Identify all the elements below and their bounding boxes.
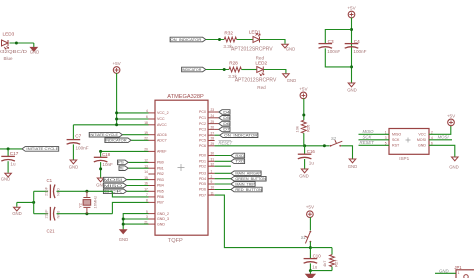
svg-text:C21: C21 <box>47 229 56 234</box>
wire +5V down <box>116 73 118 125</box>
wire crystal to PB6 <box>112 191 148 197</box>
wire to C3 <box>325 30 351 44</box>
wire flag to R32 <box>206 39 224 41</box>
net label D5 <box>219 116 230 121</box>
svg-text:3: 3 <box>385 136 387 140</box>
svg-text:23: 23 <box>211 108 215 112</box>
pin 27 PC4 <box>199 131 215 137</box>
svg-text:10: 10 <box>211 186 215 190</box>
svg-text:GND_3: GND_3 <box>157 217 169 221</box>
svg-text:VCC: VCC <box>418 133 426 137</box>
svg-text:16MHz: 16MHz <box>93 196 98 209</box>
wire JP1 GND <box>435 272 456 274</box>
wire +5V down to ground <box>351 18 353 83</box>
wire PD0 <box>215 155 231 157</box>
svg-text:12: 12 <box>144 159 148 163</box>
svg-text:INITIATE CYCLE: INITIATE CYCLE <box>89 133 118 137</box>
wire flag to R28 <box>206 69 229 71</box>
svg-text:29: 29 <box>211 142 215 146</box>
wire PD5 <box>215 183 231 185</box>
wire PB0 <box>128 161 148 163</box>
svg-text:2: 2 <box>211 175 213 179</box>
svg-text:PD2: PD2 <box>199 164 206 168</box>
svg-text:10nF: 10nF <box>102 162 113 167</box>
ground (S2) <box>348 159 358 169</box>
svg-text:ATMEGA328P: ATMEGA328P <box>167 94 204 100</box>
svg-text:PB4: PB4 <box>157 184 164 188</box>
svg-text:S1: S1 <box>301 235 306 240</box>
wire ISP GND to ground <box>429 145 455 156</box>
wire PD6 <box>215 189 231 191</box>
wire PC4 <box>215 134 220 136</box>
junction LED3 net <box>15 42 18 45</box>
svg-text:PD3: PD3 <box>199 172 206 176</box>
svg-text:7: 7 <box>146 193 148 197</box>
wire to ground <box>309 271 311 274</box>
svg-text:GND: GND <box>69 165 79 170</box>
pin 9 PD5 <box>199 180 215 186</box>
capacitor C4 <box>345 44 359 49</box>
wire down to ground <box>33 43 35 47</box>
svg-text:MOSI: MOSI <box>417 138 426 142</box>
svg-text:PC0: PC0 <box>199 110 206 114</box>
svg-text:ADC7: ADC7 <box>157 139 167 143</box>
wire ISP VCC to +5V <box>429 125 451 134</box>
svg-text:MISO: MISO <box>104 184 123 188</box>
wire ISP MISO <box>359 133 390 135</box>
wire PD7 to S1 node <box>215 195 311 248</box>
svg-text:GND_2: GND_2 <box>157 212 169 216</box>
svg-text:6: 6 <box>431 141 433 145</box>
net label D6 <box>219 121 230 126</box>
svg-text:GND: GND <box>30 50 40 55</box>
wire R27 to gnd rail <box>331 267 333 271</box>
svg-text:1u: 1u <box>312 265 318 270</box>
wire pin to flag <box>215 111 219 113</box>
wire pin to flag <box>215 123 219 125</box>
svg-text:D4: D4 <box>223 110 230 114</box>
svg-text:22pF: 22pF <box>44 186 49 196</box>
+5V supply (decoupling) <box>347 6 356 18</box>
svg-text:RESET: RESET <box>219 141 233 146</box>
net label MAIN_TRIP <box>231 182 256 187</box>
pin 24 PC1 <box>199 114 215 120</box>
svg-text:GREEN_BUTTON: GREEN_BUTTON <box>235 177 266 181</box>
origin cross <box>178 164 185 171</box>
junction <box>115 118 118 121</box>
svg-text:22pF: 22pF <box>44 209 49 219</box>
+5V supply (ISP) <box>447 114 456 126</box>
svg-text:1: 1 <box>211 170 213 174</box>
ground (C7) <box>69 160 79 170</box>
svg-text:APT2012SRCPRV: APT2012SRCPRV <box>235 78 277 84</box>
junction C18 gnd wire <box>99 167 102 170</box>
crystal Y2 <box>83 191 91 213</box>
svg-text:Red: Red <box>257 85 266 90</box>
wire top branch right <box>57 190 113 192</box>
svg-text:9: 9 <box>211 180 213 184</box>
junction RESET/C16 <box>303 144 306 147</box>
wire R to RESET <box>303 133 305 146</box>
resistor R28 <box>229 67 241 72</box>
svg-text:SCK: SCK <box>363 135 373 140</box>
capacitor C17 <box>1 156 15 161</box>
origin cross <box>406 138 411 143</box>
pin 1 PD3 <box>199 170 215 176</box>
svg-text:D5: D5 <box>223 116 230 120</box>
svg-text:+5V: +5V <box>299 87 308 92</box>
pin 16 PB4 <box>144 182 164 188</box>
wire PB3 MOSI <box>127 179 149 181</box>
wire AREF to C18 <box>101 150 149 152</box>
wire PB1 <box>128 167 148 169</box>
net label ON_INDICATOR (row 1) <box>170 37 206 42</box>
svg-text:+5V: +5V <box>347 6 356 11</box>
pin 14 PB2 <box>144 170 164 176</box>
junction C10/R27 gnd <box>309 269 312 272</box>
switch S1 <box>305 231 312 244</box>
pin 7 PB6 <box>146 193 164 199</box>
wire to C18 <box>100 151 102 157</box>
svg-text:8: 8 <box>146 199 148 203</box>
svg-text:PC6: PC6 <box>199 144 206 148</box>
junction <box>122 223 125 226</box>
LED LED2 <box>257 67 264 76</box>
capacitor C1 <box>50 185 55 199</box>
svg-text:VCC_2: VCC_2 <box>157 111 169 115</box>
net label GREEN_BUTTON <box>231 176 267 181</box>
wire top branch left <box>34 190 48 192</box>
wire RESET <box>215 145 330 147</box>
svg-text:GND: GND <box>287 78 297 83</box>
svg-text:ISP1: ISP1 <box>399 156 409 161</box>
svg-text:20: 20 <box>144 148 148 152</box>
junction RESET/S2 <box>323 144 326 147</box>
svg-text:INDICATOR: INDICATOR <box>105 139 127 143</box>
svg-text:11: 11 <box>211 191 215 195</box>
junction <box>122 218 125 221</box>
svg-text:PD0: PD0 <box>199 154 206 158</box>
wire crystal gnd stub <box>17 201 34 203</box>
net label MAIN_AIRGAP <box>231 171 262 176</box>
svg-text:PD1: PD1 <box>199 160 206 164</box>
wire pin to flag <box>215 117 219 119</box>
svg-text:PD4: PD4 <box>199 177 206 181</box>
resistor R27 (pulldown) <box>330 255 335 267</box>
svg-text:C10: C10 <box>313 254 322 259</box>
wire RESET to C16 <box>304 146 306 154</box>
svg-text:PS: PS <box>118 161 124 165</box>
op-amp U1 ATMEGA328P body <box>155 100 208 235</box>
ground (LED2) <box>283 74 297 83</box>
svg-text:C3: C3 <box>328 39 334 44</box>
pin 3 GND_3 <box>146 215 169 221</box>
+5V supply (S1) <box>306 205 315 218</box>
wire to C17 <box>7 149 9 156</box>
svg-text:R28: R28 <box>229 61 238 66</box>
pin 8 PB7 <box>146 199 164 205</box>
ground (C16) <box>299 169 309 179</box>
svg-text:C7: C7 <box>75 134 81 139</box>
svg-text:GND: GND <box>286 47 296 52</box>
svg-text:C4: C4 <box>354 39 360 44</box>
svg-text:D6: D6 <box>223 122 230 126</box>
wire crystal to PB7 <box>112 202 148 213</box>
pin 15 PB3 <box>144 176 164 182</box>
svg-text:PB2: PB2 <box>157 172 164 176</box>
pin 13 PB1 <box>144 164 164 170</box>
svg-text:30: 30 <box>211 152 215 156</box>
wire C3 to rail <box>325 48 351 67</box>
wire R32 to LED1 <box>237 39 253 41</box>
wire +5V to R <box>303 98 305 120</box>
pin 4 VCC_2 <box>146 109 169 115</box>
junction row2 <box>223 68 226 71</box>
svg-text:PC1: PC1 <box>199 116 206 120</box>
wire left bar <box>33 191 35 213</box>
svg-text:2: 2 <box>431 130 433 134</box>
svg-text:5: 5 <box>146 210 148 214</box>
wire pin to flag <box>215 128 219 130</box>
pin 23 PC0 <box>199 108 215 114</box>
net label MISO (PB4) <box>103 183 126 188</box>
capacitor C18 <box>94 157 108 162</box>
wire ISP SCK <box>359 139 390 141</box>
wire down to R27 <box>331 248 333 255</box>
svg-text:MISO: MISO <box>392 133 401 137</box>
pin 2 PD4 <box>199 175 215 181</box>
svg-text:100nF: 100nF <box>327 49 340 54</box>
junction S1 node <box>309 246 312 249</box>
wire +5V to S1 <box>309 217 311 230</box>
wire C18 to ground <box>100 162 102 178</box>
junction C3/C4 top <box>350 28 353 31</box>
capacitor C10 <box>304 259 318 264</box>
pin circle <box>464 275 468 278</box>
svg-text:GND: GND <box>439 268 449 273</box>
wire C17 net <box>0 148 22 150</box>
svg-text:10k: 10k <box>295 126 300 132</box>
wire to VCC pin 6 <box>117 118 149 120</box>
junction crystal left bar <box>32 201 35 204</box>
svg-text:LED1: LED1 <box>249 29 261 34</box>
svg-text:6: 6 <box>146 115 148 119</box>
svg-text:INDICATOR: INDICATOR <box>182 68 202 72</box>
pin 21 GND <box>144 220 165 226</box>
svg-text:21: 21 <box>144 220 148 224</box>
svg-text:C1: C1 <box>47 178 53 183</box>
wire C17 to ground <box>7 161 9 173</box>
svg-text:RST: RST <box>392 144 400 148</box>
junction <box>115 123 118 126</box>
net label TE (PB1) <box>119 166 128 171</box>
net label INDICATOR (pin 22) <box>105 138 131 143</box>
svg-text:MOSI: MOSI <box>438 135 450 140</box>
svg-text:PB7: PB7 <box>157 201 164 205</box>
wire LED1 to ground <box>260 40 285 44</box>
svg-text:ADC6: ADC6 <box>157 133 167 137</box>
junction AREF <box>99 150 102 153</box>
wire C16 to ground <box>304 159 306 169</box>
svg-text:LED2: LED2 <box>255 60 267 65</box>
wire node to C10 <box>309 248 311 259</box>
svg-text:24: 24 <box>211 114 215 118</box>
wire PD4 <box>215 178 231 180</box>
svg-text:MOSI: MOSI <box>104 178 123 182</box>
svg-text:15: 15 <box>144 176 148 180</box>
svg-text:4k7: 4k7 <box>322 260 327 267</box>
svg-text:13: 13 <box>144 164 148 168</box>
wire PD1 <box>215 160 231 162</box>
svg-text:C17: C17 <box>10 151 19 156</box>
pin 12 PB0 <box>144 159 164 165</box>
wire gnd rail <box>310 270 332 272</box>
svg-text:4: 4 <box>146 109 148 113</box>
wire rail to C7 <box>72 125 74 139</box>
svg-text:ON_INDICATOR: ON_INDICATOR <box>170 38 202 42</box>
capacitor C16 <box>298 154 312 159</box>
svg-text:AVCC: AVCC <box>157 123 167 127</box>
svg-text:4: 4 <box>431 136 433 140</box>
pin 10 PD6 <box>199 186 215 192</box>
svg-text:D7: D7 <box>223 128 230 132</box>
svg-text:PC3: PC3 <box>199 128 206 132</box>
svg-text:18: 18 <box>144 121 148 125</box>
svg-text:PC4: PC4 <box>199 133 206 137</box>
wire PD3 <box>215 172 231 174</box>
pin 6 VCC <box>146 115 165 121</box>
capacitor C21 <box>50 207 55 221</box>
net label PS (PB0) <box>118 160 129 165</box>
svg-text:GND: GND <box>157 222 165 226</box>
wire ADC6 <box>122 134 148 136</box>
svg-text:GND: GND <box>449 164 459 169</box>
svg-text:PD6: PD6 <box>199 188 206 192</box>
wire GND_3 <box>123 218 148 220</box>
svg-text:PB3: PB3 <box>157 178 164 182</box>
pin 28 PC5 <box>199 137 215 143</box>
net label RED_BUTTON <box>231 187 263 192</box>
svg-text:C16: C16 <box>307 149 316 154</box>
svg-text:GND: GND <box>348 164 358 169</box>
wire PD2 stub <box>215 165 231 167</box>
+5V supply (reset pullup) <box>299 87 308 99</box>
wire LED2 to ground <box>264 70 286 74</box>
svg-text:RED_BUTTON: RED_BUTTON <box>235 188 262 192</box>
svg-text:PB1: PB1 <box>157 166 164 170</box>
pin 30 PD0 <box>199 152 215 158</box>
svg-text:PC5: PC5 <box>199 139 206 143</box>
svg-text:22: 22 <box>144 137 148 141</box>
svg-text:19: 19 <box>144 131 148 135</box>
svg-text:MAIN_AIRGAP: MAIN_AIRGAP <box>235 172 261 176</box>
pin 11 PD7 <box>199 191 215 197</box>
svg-text:PB5: PB5 <box>157 190 164 194</box>
svg-text:RESET: RESET <box>360 140 375 145</box>
svg-text:GND: GND <box>119 237 129 242</box>
svg-text:14: 14 <box>144 170 148 174</box>
wire GND_2 <box>123 214 148 230</box>
pin 17 PB5 <box>144 188 164 194</box>
svg-text:100nF: 100nF <box>353 49 366 54</box>
wire C7 to ground <box>72 144 74 159</box>
svg-text:VCC: VCC <box>157 117 165 121</box>
pin 32 PD2 <box>199 162 215 168</box>
junction <box>115 111 118 114</box>
net label INITIATE CYCLE (pin 19) <box>89 132 122 137</box>
svg-text:SCK: SCK <box>392 138 400 142</box>
svg-text:TE: TE <box>119 166 124 170</box>
svg-text:1u: 1u <box>309 161 315 166</box>
junction C3/C4 bottom <box>350 65 353 68</box>
net name RESET <box>360 140 375 145</box>
pin 19 ADC6 <box>144 131 166 137</box>
svg-text:ON_INDICATOR: ON_INDICATOR <box>224 133 258 137</box>
svg-text:100nF: 100nF <box>76 145 89 150</box>
svg-text:3: 3 <box>146 215 148 219</box>
svg-text:32: 32 <box>211 162 215 166</box>
svg-text:Y2: Y2 <box>78 202 83 208</box>
svg-text:MAIN_TRIP: MAIN_TRIP <box>235 182 255 186</box>
svg-text:APT2012SRCPRV: APT2012SRCPRV <box>231 47 273 53</box>
ground (LED1) <box>282 44 296 51</box>
wire node to R27 <box>310 247 332 249</box>
svg-text:+5V: +5V <box>447 114 456 119</box>
svg-text:PD5: PD5 <box>199 182 206 186</box>
svg-text:C18: C18 <box>102 152 111 157</box>
wire to VCC_2 pin 4 <box>117 112 149 114</box>
svg-text:5: 5 <box>385 141 387 145</box>
net label INITIATE CYCLE (left) <box>22 147 59 152</box>
net label MOSI (PB3) <box>103 177 126 182</box>
ground (C17) <box>1 173 12 181</box>
op-amp ISP1 body <box>389 129 429 155</box>
svg-text:GND: GND <box>299 174 309 179</box>
svg-text:PC2: PC2 <box>199 122 206 126</box>
svg-text:RXD: RXD <box>235 154 245 158</box>
ground (crystal) <box>12 207 22 216</box>
net label ON_INDICATOR (pin 27) <box>220 133 259 138</box>
svg-text:MISO: MISO <box>363 129 375 134</box>
svg-text:GND: GND <box>12 211 22 216</box>
net label D4 <box>219 110 230 115</box>
junction C17 <box>7 147 10 150</box>
svg-text:R26: R26 <box>306 124 311 132</box>
connector JP1 body <box>456 270 474 278</box>
wire bottom branch left <box>34 213 48 215</box>
pin 29 PC6 <box>199 142 215 148</box>
wire S2 to ground <box>341 146 352 159</box>
wire VCC rail to AVCC pin 18 <box>73 124 148 126</box>
svg-text:TD32QBC/D: TD32QBC/D <box>0 49 28 55</box>
svg-text:LED3: LED3 <box>3 32 15 37</box>
junction <box>302 114 305 117</box>
net label TXD <box>231 159 245 164</box>
svg-text:TXD: TXD <box>235 160 245 164</box>
pin 26 PC3 <box>199 126 215 132</box>
svg-text:1: 1 <box>385 130 387 134</box>
svg-text:R27: R27 <box>334 259 339 267</box>
net label D7 <box>219 127 230 132</box>
wire GND pin <box>123 223 148 225</box>
svg-text:S2: S2 <box>331 136 337 141</box>
svg-text:1u: 1u <box>10 162 16 167</box>
pin 31 PD1 <box>199 158 215 164</box>
svg-text:GND: GND <box>418 144 426 148</box>
ground (S1 block) <box>306 274 315 278</box>
junction crystal bottom <box>85 212 88 215</box>
net label INDICATOR (row 2) <box>182 67 206 72</box>
